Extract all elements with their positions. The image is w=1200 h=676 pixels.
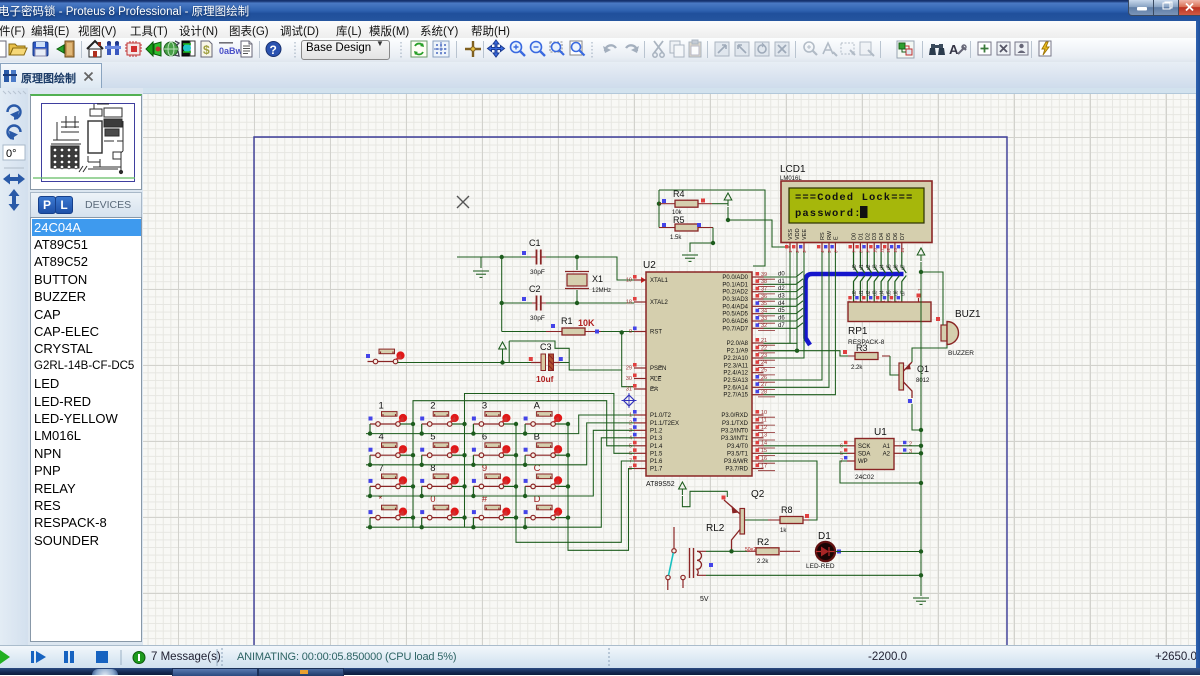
wire arrow stem (502, 355, 504, 363)
ground below R5 (682, 255, 698, 261)
wire keypad col3 to P1.6 (516, 424, 634, 542)
junction col4 row3 (566, 484, 570, 488)
node VCC lcd (726, 218, 730, 222)
wire P3.4 to SCK (764, 445, 848, 447)
node C2 left (500, 301, 504, 305)
wire R1 to RST (601, 331, 634, 333)
junction row2 col4 (523, 463, 527, 467)
svg-text:0aBw: 0aBw (219, 46, 244, 56)
status bar (0, 645, 1200, 669)
wire power down (727, 207, 729, 220)
button keypad # (472, 505, 511, 520)
wire C3 loop left (508, 341, 510, 363)
junction row1 col1 (368, 431, 372, 435)
taskbar (0, 668, 1200, 675)
LCD pin stubs and labels (788, 228, 906, 252)
button keypad 8 (420, 474, 459, 489)
resistor R8 1k (780, 517, 803, 524)
power arrow rail (917, 248, 925, 261)
wire LCD VDD to U2 (764, 252, 798, 351)
wire P0.1 to bus (764, 283, 797, 285)
resistor R3 2.2k (855, 353, 878, 360)
wire P0.7 to bus (764, 327, 797, 329)
LCD LCD1 LM016L (781, 181, 932, 243)
node RST loop (620, 330, 624, 334)
data bus (blue) (806, 274, 904, 345)
button keypad 2 (420, 412, 459, 427)
menu bar (0, 21, 1200, 38)
junction row4 col3 (471, 525, 475, 529)
junction col3 row3 (514, 484, 518, 488)
wire WP loop to rail (840, 461, 921, 483)
button keypad 5 (420, 443, 459, 458)
transistor Q2 (PNP) (724, 500, 745, 551)
button keypad 7 (369, 474, 408, 489)
buzzer BUZ1 (941, 322, 959, 345)
wire R4-R5 left rail (658, 190, 660, 228)
node collector rail (919, 428, 923, 432)
RP1 pin 1 (918, 298, 920, 302)
wire left rail down to RST net (501, 257, 503, 332)
svg-text:?: ? (270, 43, 277, 57)
button keypad 6 (472, 443, 511, 458)
junction col1 row1 (411, 422, 415, 426)
junction col2 row2 (462, 453, 466, 457)
LED D1 LED-RED (816, 542, 835, 561)
node WP (919, 481, 923, 485)
button keypad * (369, 505, 408, 520)
canvas (143, 88, 1200, 645)
left panel (28, 88, 143, 645)
button keypad A (524, 412, 563, 427)
junction col4 row1 (566, 422, 570, 426)
wire P0.5 to bus (764, 313, 797, 315)
node A1 (919, 444, 923, 448)
button keypad C (524, 474, 563, 489)
wire C2 to XTAL2 (546, 302, 634, 304)
junction col1 row2 (411, 453, 415, 457)
wire P2.0 to bus tip (790, 342, 797, 344)
wire LCD E to U2 (764, 252, 836, 395)
node R4 left (657, 202, 661, 206)
junction col4 row2 (566, 453, 570, 457)
schematic sheet border (254, 137, 1007, 645)
ground right rail (913, 598, 929, 604)
node coil bottom (919, 573, 923, 577)
wire P0.3 to bus (764, 298, 797, 300)
wire to R1 (502, 331, 546, 333)
capacitor C1 30pF (531, 250, 546, 265)
junction row3 col4 (523, 494, 527, 498)
power arrow R4 (724, 193, 732, 206)
wire LCD RS to U2 (764, 252, 823, 380)
node C1-C2 rail top (500, 255, 504, 259)
wire Q1 collector down (912, 404, 921, 430)
wire keypad row 4 to P1.3 (366, 438, 634, 527)
U1 pins (840, 441, 912, 465)
toolbar (0, 38, 1200, 63)
junction col3 row4 (514, 515, 518, 519)
wire LCD VEE to U2 (764, 252, 805, 358)
resistor R5 1.5k (675, 224, 698, 231)
node VDD row (795, 349, 799, 353)
node X1 bottom (575, 301, 579, 305)
U2 left pins (626, 275, 679, 473)
placement origin marker (622, 393, 637, 408)
wire A1 to rail (902, 445, 921, 447)
wire buzzer to +5V rail (921, 272, 943, 325)
junction row3 col3 (471, 494, 475, 498)
wire coil bottom to rail (706, 574, 921, 576)
svg-text:$: $ (203, 43, 210, 57)
junction col2 row4 (462, 515, 466, 519)
wire LCD RW to U2 (764, 252, 830, 387)
wire keypad col2 vertical (464, 424, 466, 527)
transistor Q1 8012 (PNP) (899, 362, 912, 398)
wire LCD VSS to U2 (764, 252, 791, 343)
junction col1 row4 (411, 515, 415, 519)
wire keypad row 2 to P1.1 (366, 423, 634, 465)
wire keypad row 1 to P1.0 (366, 415, 634, 434)
capacitor C2 30pF (531, 296, 546, 311)
pin state arrow XTAL1 (641, 277, 646, 283)
wire C1 left to ground node (457, 256, 532, 258)
bus entry labels (rotated d0-d7) (846, 264, 906, 303)
MCU U2 AT89S52 (646, 272, 752, 476)
wire R8 to Q2 base (745, 519, 769, 521)
wire P3.5 to SDA (764, 452, 848, 454)
junction col3 row2 (514, 453, 518, 457)
wire D1 to rail (836, 551, 922, 553)
button keypad 3 (472, 412, 511, 427)
junction row2 col2 (420, 463, 424, 467)
svg-text:A: A (949, 42, 959, 57)
resistor pack RP1 RESPACK-8 (848, 302, 931, 322)
junction col1 row3 (411, 484, 415, 488)
wire P2.1 to R3 (764, 351, 849, 356)
wire Q1 emitter to buzzer (912, 341, 947, 362)
wire P0.0 to bus (764, 276, 797, 278)
crystal X1 12MHz (565, 257, 589, 303)
wire P0.2 to bus (764, 291, 797, 293)
wire C3 loop to RST (509, 333, 622, 371)
wire VCC to LCD VSS/VDD (728, 220, 790, 247)
wire +5V/common right rail (920, 262, 922, 596)
wire A2 to rail (902, 452, 921, 454)
wire R3 to Q1 base (890, 356, 899, 375)
U2 right pins (721, 272, 775, 473)
relay RL2 switch (666, 527, 685, 590)
wire reset button to C3 (398, 362, 532, 364)
wire R5 to ground (690, 228, 713, 253)
button keypad 0 (420, 505, 459, 520)
EEPROM U1 24C02 (855, 439, 894, 470)
junction col4 row4 (566, 515, 570, 519)
power arrow near C3 (499, 342, 507, 355)
ground (473, 271, 489, 277)
junction row2 col1 (368, 463, 372, 467)
wire keypad col1 vertical (412, 424, 414, 527)
resistor R2 2.2k (756, 548, 779, 555)
LCD data pin wires to bus and RP1 (854, 252, 907, 302)
junction row1 col2 (420, 431, 424, 435)
node Q2 collector (729, 549, 733, 553)
LCD pin numbers + squares (785, 245, 905, 253)
junction col2 row1 (462, 422, 466, 426)
wire P3.6 to R8 (764, 461, 818, 520)
junction row4 col1 (368, 525, 372, 529)
node R5 gnd (711, 241, 715, 245)
node X1 top (575, 255, 579, 259)
junction row4 col4 (523, 525, 527, 529)
button RESET (366, 349, 405, 364)
junction row3 col2 (420, 494, 424, 498)
origin X cursor (457, 196, 469, 208)
wire keypad col1 to P1.4 (413, 401, 634, 446)
resistor R4 10k (675, 200, 698, 207)
junction row3 col1 (368, 494, 372, 498)
junction col3 row1 (514, 422, 518, 426)
wire P0.6 to bus (764, 320, 797, 322)
node buzzer rail (919, 270, 923, 274)
junction row1 col3 (471, 431, 475, 435)
node reset net (500, 360, 504, 364)
capacitor C3 10uf (531, 354, 560, 371)
title bar (0, 0, 1200, 21)
junction row4 col2 (420, 525, 424, 529)
junction col2 row3 (462, 484, 466, 488)
wire to EA (622, 370, 634, 387)
node D1 rail (919, 549, 923, 553)
button keypad 9 (472, 474, 511, 489)
tab bar (0, 62, 1200, 89)
wire C2 left (502, 302, 532, 304)
button keypad D (524, 505, 563, 520)
left rotate/mirror sidebar (0, 88, 29, 645)
button keypad 4 (369, 443, 408, 458)
relay RL2 coil (690, 548, 707, 578)
wire keypad col4 to P1.7 (568, 424, 634, 550)
wire C1 to XTAL1 (546, 257, 634, 280)
wire coil top to R2 (706, 550, 747, 552)
wire keypad row 3 to P1.2 (366, 430, 634, 496)
wire keypad col2 to P1.5 (465, 394, 635, 454)
button keypad B (524, 443, 563, 458)
button keypad 1 (369, 412, 408, 427)
node A2 (919, 451, 923, 455)
junction row2 col3 (471, 463, 475, 467)
wire R4 top loop (659, 190, 765, 266)
wire C3 right (560, 362, 569, 364)
resistor R1 10K (562, 328, 585, 335)
junction row1 col4 (523, 431, 527, 435)
power arrow Q2 (679, 482, 687, 495)
wire +5V to Q2 emitter (682, 491, 727, 506)
wire R4 to power (712, 203, 728, 205)
wire P0.4 to bus (764, 305, 797, 307)
svg-text:0°: 0° (6, 148, 17, 160)
wire ground drop (480, 257, 482, 268)
